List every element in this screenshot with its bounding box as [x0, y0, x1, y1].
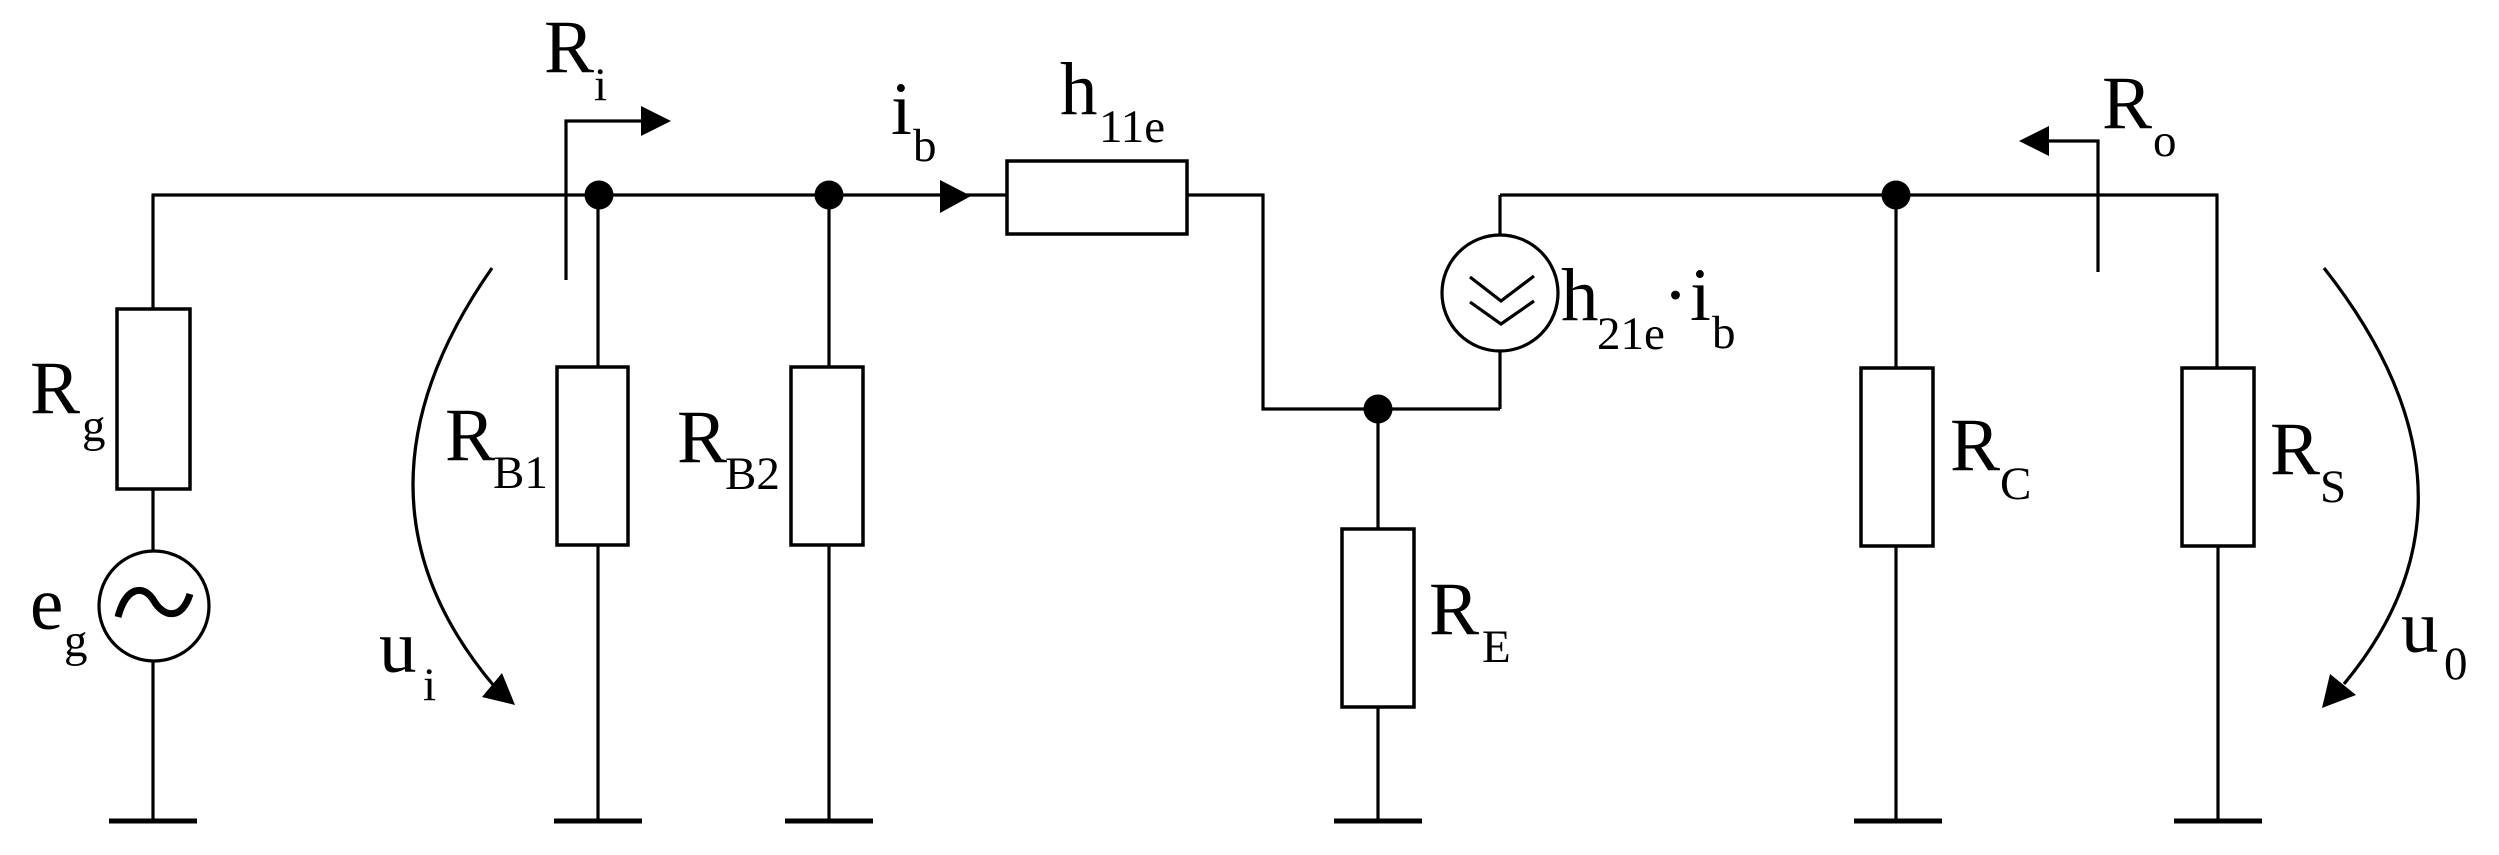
wire h11e to node C — [1187, 195, 1500, 409]
Ri marker arrow — [566, 121, 642, 280]
wire RS bottom — [2216, 546, 2219, 820]
resistor RC — [1861, 368, 1933, 546]
svg-text:i: i — [594, 59, 607, 111]
svg-text:b: b — [913, 120, 937, 172]
svg-text:11e: 11e — [1099, 101, 1165, 153]
svg-text:o: o — [2153, 115, 2177, 167]
svg-text:g: g — [64, 615, 88, 667]
svg-text:R: R — [544, 6, 594, 89]
ground RS — [2174, 819, 2262, 824]
svg-text:R: R — [2270, 408, 2320, 491]
ib current arrowhead — [940, 180, 971, 213]
wire RB1 bottom — [596, 545, 599, 820]
resistor RB2 — [791, 367, 863, 545]
wire RB2 top — [827, 195, 830, 368]
svg-text:R: R — [2102, 62, 2152, 145]
wire Rg top — [151, 195, 154, 310]
resistor Rg — [117, 309, 190, 489]
svg-text:e: e — [30, 563, 63, 646]
wire top bus right — [1500, 193, 2219, 196]
ground (left) — [109, 819, 197, 824]
svg-text:i: i — [423, 659, 436, 711]
svg-text:·: · — [1663, 254, 1688, 337]
svg-text:u: u — [2401, 586, 2439, 669]
ground RC — [1854, 819, 1942, 824]
wire RC bottom — [1894, 546, 1897, 820]
svg-text:R: R — [677, 396, 727, 479]
svg-text:R: R — [445, 394, 495, 477]
node D — [1882, 181, 1911, 210]
ui voltage arc arrow — [413, 268, 494, 686]
wire Rg to eg — [151, 489, 154, 552]
svg-text:B2: B2 — [725, 448, 780, 500]
svg-text:h: h — [1561, 254, 1599, 337]
wire RB2 bottom — [827, 545, 830, 820]
wire source bottom — [1498, 351, 1501, 409]
wire RC top — [1894, 195, 1897, 369]
current source h21e·ib — [1442, 235, 1558, 351]
Ro marker arrow — [2048, 141, 2098, 272]
svg-text:u: u — [379, 606, 417, 689]
svg-text:g: g — [82, 400, 106, 452]
resistor RE — [1342, 529, 1414, 707]
resistor h11e — [1007, 161, 1187, 234]
svg-text:i: i — [1690, 254, 1711, 337]
svg-text:B1: B1 — [493, 447, 548, 499]
svg-text:C: C — [2000, 458, 2031, 510]
svg-text:i: i — [891, 68, 912, 151]
wire RB1 top — [596, 195, 599, 368]
wire node C to RE — [1376, 409, 1379, 530]
u0 voltage arc arrow — [2324, 268, 2418, 684]
node A — [585, 181, 614, 210]
wire top bus left — [152, 193, 1009, 196]
resistor RB1 — [557, 367, 628, 545]
svg-text:b: b — [1712, 307, 1736, 359]
resistor RS — [2182, 368, 2254, 546]
node C — [1364, 395, 1393, 424]
svg-text:h: h — [1060, 48, 1098, 131]
wire RE bottom — [1376, 707, 1379, 820]
svg-text:21e: 21e — [1597, 308, 1665, 360]
svg-text:R: R — [1429, 568, 1479, 651]
svg-text:R: R — [30, 347, 80, 430]
ground RB2 — [785, 819, 873, 824]
svg-text:S: S — [2320, 461, 2346, 513]
ground RE — [1334, 819, 1422, 824]
wire source top — [1498, 195, 1501, 235]
svg-text:E: E — [1482, 621, 1511, 673]
wire RS top — [2215, 195, 2218, 369]
wire eg to ground — [151, 661, 154, 820]
svg-text:0: 0 — [2444, 638, 2468, 690]
ground RB1 — [554, 819, 642, 824]
source eg — [99, 551, 209, 661]
svg-text:R: R — [1950, 404, 2000, 487]
node B — [815, 181, 844, 210]
